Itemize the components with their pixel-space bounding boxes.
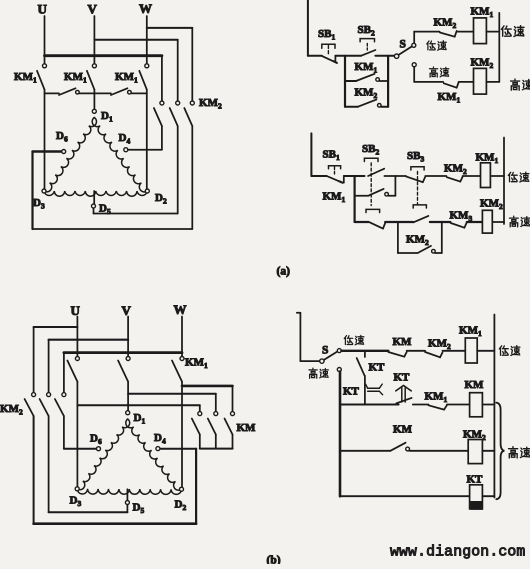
svg-text:KT: KT (394, 372, 411, 384)
svg-text:KT: KT (467, 474, 484, 486)
svg-text:KT: KT (343, 386, 360, 398)
svg-text:U: U (71, 303, 81, 318)
svg-text:KM: KM (393, 424, 413, 436)
svg-text:S: S (400, 39, 406, 51)
svg-text:W: W (139, 1, 152, 16)
svg-text:KM: KM (237, 422, 257, 434)
svg-text:www.diangon.com: www.diangon.com (390, 545, 525, 561)
svg-text:V: V (88, 2, 98, 17)
svg-text:(a): (a) (277, 266, 291, 278)
svg-text:W: W (174, 302, 187, 317)
svg-text:S: S (322, 345, 328, 357)
svg-text:KM: KM (393, 336, 413, 348)
svg-text:(b): (b) (267, 555, 281, 565)
svg-text:V: V (122, 303, 132, 318)
svg-text:U: U (38, 2, 48, 17)
svg-text:KT: KT (369, 362, 386, 374)
svg-text:KM: KM (465, 379, 485, 391)
